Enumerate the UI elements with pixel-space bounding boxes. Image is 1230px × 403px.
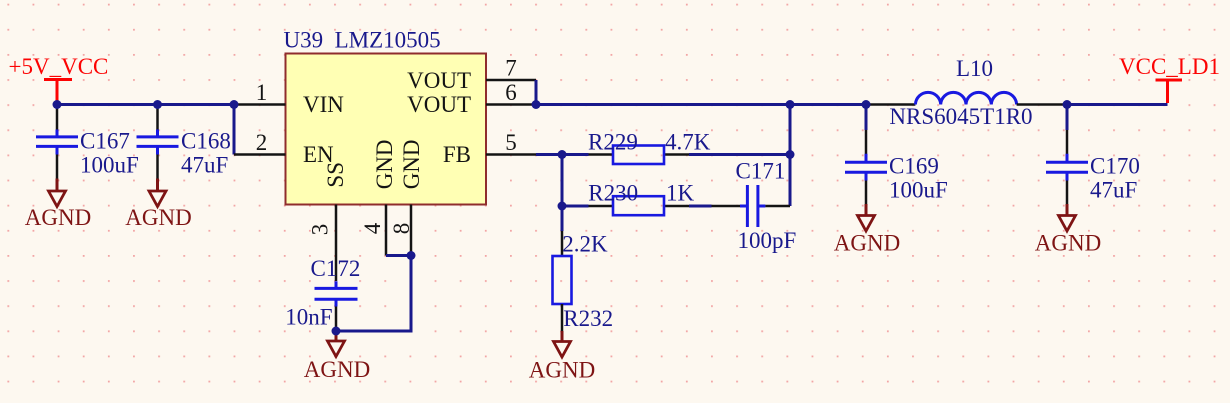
svg-text:100uF: 100uF: [889, 178, 948, 203]
svg-text:47uF: 47uF: [181, 152, 228, 177]
svg-text:C168: C168: [181, 128, 231, 153]
svg-text:AGND: AGND: [834, 231, 900, 256]
svg-text:2: 2: [256, 130, 268, 155]
pin 8 GND: [389, 139, 424, 255]
svg-text:6: 6: [505, 80, 517, 105]
pin 3 SS: [308, 162, 348, 281]
capacitor C168: [137, 105, 231, 179]
svg-text:R230: R230: [588, 180, 638, 205]
pin 6 VOUT: [407, 80, 536, 117]
svg-text:R229: R229: [588, 129, 638, 154]
node junction VIN/EN: [230, 100, 239, 109]
svg-text:GND: GND: [399, 139, 424, 189]
ground AGND (C167): [25, 179, 91, 231]
svg-text:1K: 1K: [666, 180, 695, 205]
pin 1 VIN: [234, 80, 344, 117]
svg-text:8: 8: [389, 223, 414, 235]
resistor R232: [553, 231, 614, 331]
wire C171 right riser: [789, 105, 792, 207]
capacitor C170: [1046, 105, 1140, 205]
node junction C168: [153, 100, 162, 109]
svg-text:AGND: AGND: [25, 205, 91, 230]
svg-text:100pF: 100pF: [738, 228, 797, 253]
svg-text:R232: R232: [563, 306, 613, 331]
node junction C172: [332, 327, 341, 336]
node junction VOUT/riser: [786, 100, 795, 109]
svg-text:4: 4: [360, 222, 385, 234]
svg-text:VOUT: VOUT: [407, 68, 471, 93]
svg-text:SS: SS: [323, 162, 348, 188]
svg-text:AGND: AGND: [125, 205, 191, 230]
ground AGND (C168): [125, 179, 191, 231]
wire VOUT7 elbow: [535, 80, 538, 105]
capacitor C167: [36, 105, 139, 179]
pin 5 FB: [443, 130, 536, 167]
power symbol +5V_VCC: [9, 54, 109, 102]
svg-text:AGND: AGND: [304, 357, 370, 382]
svg-text:7: 7: [505, 55, 517, 80]
capacitor C171: [712, 159, 797, 254]
wire to EN pin: [233, 105, 236, 155]
node junction pin8: [407, 251, 416, 260]
wire main input rail: [57, 103, 234, 106]
power symbol VCC_LD1: [1119, 54, 1220, 103]
svg-text:C172: C172: [311, 256, 361, 281]
svg-text:AGND: AGND: [1035, 231, 1101, 256]
svg-text:10nF: 10nF: [285, 305, 332, 330]
svg-text:1: 1: [256, 80, 268, 105]
node junction FB: [558, 150, 567, 159]
ground AGND (C170): [1035, 204, 1101, 256]
svg-text:3: 3: [308, 224, 333, 236]
svg-text:5: 5: [505, 130, 517, 155]
svg-text:2.2K: 2.2K: [562, 231, 608, 256]
pin 2 EN: [234, 130, 334, 167]
node junction +5V/C167: [53, 100, 62, 109]
wire L10 to VCC_LD1: [1067, 103, 1168, 106]
svg-text:47uF: 47uF: [1090, 178, 1137, 203]
svg-text:L10: L10: [956, 56, 993, 81]
IC U39 LMZ10505 body: [284, 27, 487, 204]
node junction C169: [862, 100, 871, 109]
capacitor C172: [285, 256, 360, 331]
pin 7 VOUT: [407, 55, 536, 93]
ground AGND (C169): [834, 204, 900, 256]
wire R229 to C171 node: [689, 153, 790, 156]
pin 4 GND: [360, 139, 397, 255]
svg-text:C170: C170: [1090, 154, 1140, 179]
wire SS/GND return: [336, 256, 411, 332]
svg-text:GND: GND: [372, 139, 397, 189]
wire VOUT rail: [536, 103, 866, 106]
svg-text:C167: C167: [80, 128, 130, 153]
svg-text:VIN: VIN: [303, 92, 344, 117]
ground AGND (R232): [529, 331, 595, 383]
resistor R230: [562, 180, 695, 215]
svg-text:U39 LMZ10505: U39 LMZ10505: [284, 27, 441, 52]
svg-text:C169: C169: [889, 154, 939, 179]
svg-text:100uF: 100uF: [80, 152, 139, 177]
svg-text:4.7K: 4.7K: [665, 129, 711, 154]
svg-text:FB: FB: [443, 142, 471, 167]
node junction C170: [1063, 100, 1072, 109]
svg-text:VOUT: VOUT: [407, 92, 471, 117]
ground AGND (C172): [304, 331, 370, 382]
svg-text:+5V_VCC: +5V_VCC: [9, 54, 109, 79]
wire R230 to C171: [689, 205, 712, 208]
node junction R229/C171: [786, 150, 795, 159]
wire FB: [536, 153, 589, 156]
capacitor C169: [845, 105, 948, 205]
inductor L10: [866, 56, 1067, 129]
svg-text:VCC_LD1: VCC_LD1: [1119, 54, 1220, 79]
svg-text:NRS6045T1R0: NRS6045T1R0: [889, 104, 1032, 129]
svg-text:C171: C171: [736, 159, 786, 184]
wire FB down: [561, 155, 564, 232]
resistor R229: [588, 129, 711, 164]
svg-text:AGND: AGND: [529, 358, 595, 383]
node junction R230: [558, 202, 567, 211]
node junction VOUT: [532, 100, 541, 109]
